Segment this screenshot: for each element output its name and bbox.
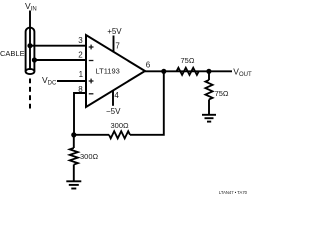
svg-text:8: 8 xyxy=(78,85,83,94)
svg-text:CABLE: CABLE xyxy=(0,49,25,58)
resistor R3 300 ohm feedback xyxy=(109,121,130,139)
svg-text:75Ω: 75Ω xyxy=(215,89,229,98)
svg-text:300Ω: 300Ω xyxy=(80,152,99,161)
svg-text:7: 7 xyxy=(115,42,120,51)
resistor R4 300 ohm to ground xyxy=(70,135,99,181)
svg-text:LTAN47 • TA70: LTAN47 • TA70 xyxy=(219,190,248,195)
cable shield dashed line xyxy=(29,79,31,109)
node C feedback junction xyxy=(71,132,76,137)
wire from R3 to node C xyxy=(74,134,109,136)
wire to pin 2 xyxy=(34,59,87,61)
svg-text:LT1193: LT1193 xyxy=(96,67,120,76)
svg-text:+5V: +5V xyxy=(107,27,122,36)
wire from VIN to cable xyxy=(29,11,31,31)
cable center conductor xyxy=(29,30,31,70)
svg-text:300Ω: 300Ω xyxy=(111,121,130,130)
svg-text:−5V: −5V xyxy=(106,107,121,116)
svg-text:2: 2 xyxy=(78,50,83,59)
svg-text:3: 3 xyxy=(78,36,83,45)
node B VOUT junction xyxy=(206,69,211,74)
wire to pin 1 xyxy=(57,80,87,82)
resistor R2 75 ohm shunt xyxy=(205,71,229,114)
wire from pin 8 xyxy=(74,93,87,135)
output wire from pin 6 xyxy=(145,70,232,72)
svg-text:1: 1 xyxy=(79,70,84,79)
ground (right, under R2) xyxy=(202,115,216,122)
pin 7 supply wire xyxy=(113,36,115,53)
feedback wire from node A down xyxy=(130,71,164,135)
node A output junction xyxy=(161,69,166,74)
node on cable center conductor xyxy=(27,43,32,48)
resistor R1 75 ohm series xyxy=(177,56,199,75)
wire to pin 3 xyxy=(30,45,87,47)
svg-text:75Ω: 75Ω xyxy=(181,56,195,65)
node on cable shield xyxy=(32,57,37,62)
svg-text:4: 4 xyxy=(114,91,119,100)
op-amp U1 LT1193 xyxy=(86,35,145,107)
svg-text:6: 6 xyxy=(146,60,151,69)
pin 4 supply wire xyxy=(112,91,114,106)
ground (left, under R4) xyxy=(66,181,81,188)
cable coax shield cylinder xyxy=(26,28,35,75)
